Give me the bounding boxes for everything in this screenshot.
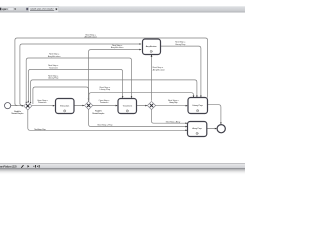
wire Library Prep right to end circle top xyxy=(208,105,221,124)
wire D2 to Treatment xyxy=(93,105,117,107)
label Next Step = Amplification (below HB) xyxy=(111,44,124,49)
status bar xyxy=(0,163,245,168)
svg-text:Treatment: Treatment xyxy=(49,66,58,69)
wire Amplification right to LP top: right y46.1, down x200.9 xyxy=(161,46,201,96)
svg-text:Extraction: Extraction xyxy=(38,101,47,104)
wire D2 bottom loop to Array Prep: down x88.6, right y126.6 xyxy=(89,109,186,126)
label Ready For Material Samples (start) xyxy=(11,110,24,115)
svg-text:Library Prep: Library Prep xyxy=(100,88,111,91)
label Next Step = Treatment (above HD) xyxy=(48,64,59,69)
arrowhead into Amplification left #1 xyxy=(139,43,141,45)
arrowhead into D1 top area from HC xyxy=(26,102,27,104)
svg-text:DiagramPlatform1529: DiagramPlatform1529 xyxy=(0,165,17,168)
label Ready For Material Samples (D2) xyxy=(92,110,105,115)
state box Library Prep xyxy=(188,98,208,114)
wire loop HG: from D2 top stub right y92.7, down x193.5 into LP top xyxy=(89,93,194,101)
state box Amplification xyxy=(143,39,161,55)
svg-text:Treatment: Treatment xyxy=(123,105,133,108)
svg-text:Amplification: Amplification xyxy=(146,45,158,48)
wire loop HD: y69.4 from x28.4 to Treatment top xyxy=(28,69,122,102)
svg-text:Array Prep: Array Prep xyxy=(192,127,202,130)
arrowhead into Treatment top xyxy=(131,96,133,98)
label Next Step = Library Prep (above that) xyxy=(175,41,186,46)
svg-text:Next Step = Prep: Next Step = Prep xyxy=(98,124,114,127)
wire loop HC: y58 from x26.2 down from corner to Treatment top xyxy=(26,58,131,103)
svg-text:Amplification: Amplification xyxy=(84,36,97,39)
wire D3 bottom loop to Array Prep: down x151.4, right y123.2 xyxy=(151,109,186,123)
wire loop HE: y79.9 from x30.6 to Library Prep top xyxy=(31,80,197,103)
drop shadow below window xyxy=(0,169,245,175)
wire Extraction to D2 xyxy=(74,105,83,107)
left partial tab xyxy=(0,7,16,11)
label Next Step = Library Prep (above HE) xyxy=(48,74,59,79)
wire D1 bottom loop to Array Prep: down x27.8, right y130.3 xyxy=(28,110,186,131)
canvas background xyxy=(0,0,245,183)
tab bar band xyxy=(0,6,245,12)
svg-text:Library Prep: Library Prep xyxy=(192,104,203,107)
wire Treatment to D3 xyxy=(137,105,146,107)
svg-text:Amplification: Amplification xyxy=(111,46,124,49)
svg-text:Extraction: Extraction xyxy=(60,105,70,108)
gateway D3 xyxy=(147,101,155,109)
svg-text:Material Samples: Material Samples xyxy=(11,112,24,115)
state box Array Prep xyxy=(188,122,207,137)
end event circle xyxy=(217,125,225,133)
label Next Step = Amplification (on D3-Amplification wire) xyxy=(153,66,166,71)
state box Extraction xyxy=(56,99,75,114)
active editor tab xyxy=(26,6,59,12)
wire D1 to Extraction xyxy=(32,105,54,107)
gateway D1 (exclusive, X) xyxy=(24,102,32,110)
wire D3 to Library Prep xyxy=(156,105,187,107)
wire start to D1 xyxy=(11,105,23,107)
wire HA merge into main flow xyxy=(15,104,17,106)
wire D3 top up to Amplification bottom xyxy=(151,55,153,101)
gateway D2 xyxy=(85,101,93,109)
status icons xyxy=(21,165,24,168)
start event circle xyxy=(5,103,11,109)
svg-text:agram: agram xyxy=(2,8,7,11)
label Next Step = Amplification (above HC) xyxy=(48,53,61,58)
state box Treatment xyxy=(118,99,137,114)
label Next Step = Library Prep (above HG) xyxy=(100,86,111,91)
svg-text:Amplification: Amplification xyxy=(153,68,166,71)
svg-text:Next Step = Prep: Next Step = Prep xyxy=(34,128,46,131)
svg-text:Library Prep: Library Prep xyxy=(169,101,178,104)
wire Array Prep right to end circle left xyxy=(207,128,216,130)
wire loop HB: y44 from x19.9 to Amplification left xyxy=(20,44,140,103)
label Open Step = Extraction xyxy=(37,99,49,104)
label Open Step = Treatment xyxy=(99,99,111,104)
wire loop HF: from D1 area up x32.9, right y87, down into D2 top xyxy=(33,87,89,104)
svg-text:Library Prep: Library Prep xyxy=(48,77,59,80)
svg-text:Amplification: Amplification xyxy=(48,55,61,58)
svg-text:Treatment: Treatment xyxy=(100,101,109,104)
svg-text:Next Step = Array: Next Step = Array xyxy=(166,120,181,123)
svg-text:Library Prep: Library Prep xyxy=(175,43,186,46)
wire loop HA: y38 from x14.9 to x207.6 then down to Library Prep xyxy=(15,38,208,104)
label Next Step = Library Prep (D3 to LP) xyxy=(168,99,180,104)
wire D2 top to Amplification left #2: up x88.5, right y49.6 xyxy=(89,50,140,102)
label Next Step = Amplification (above HA) xyxy=(84,33,97,38)
svg-text:Material Samples: Material Samples xyxy=(92,112,105,115)
